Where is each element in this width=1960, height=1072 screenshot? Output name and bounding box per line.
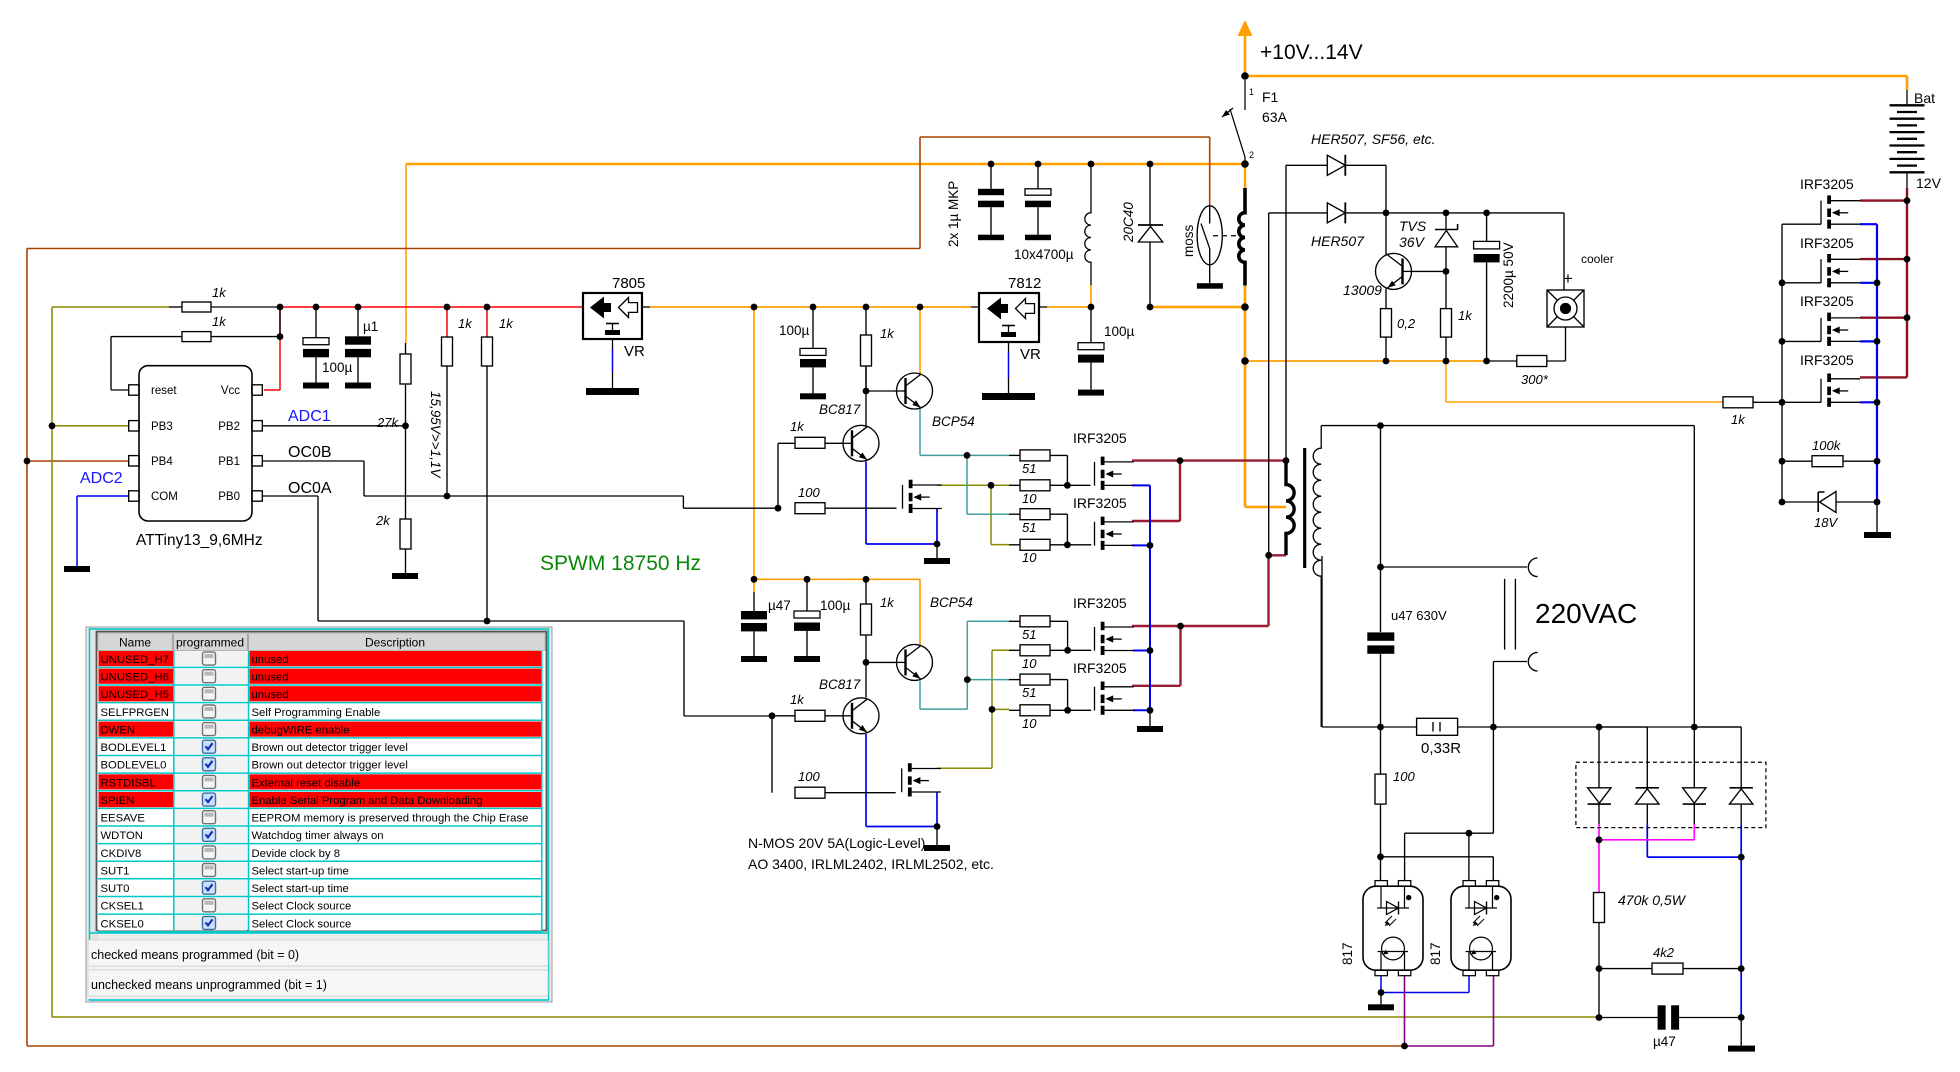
svg-text:Devide clock by 8: Devide clock by 8 [252, 848, 341, 860]
svg-text:PB4: PB4 [151, 456, 173, 468]
transistor N-MOS driver top [903, 480, 942, 513]
table row DWEN [98, 722, 542, 738]
optocoupler 817 left [1363, 881, 1423, 976]
svg-text:PB1: PB1 [218, 456, 240, 468]
svg-text:CKDIV8: CKDIV8 [101, 848, 142, 860]
svg-text:100: 100 [798, 485, 820, 500]
svg-text:Description: Description [365, 636, 425, 650]
svg-text:VR: VR [1020, 346, 1041, 363]
svg-text:HER507: HER507 [1311, 233, 1365, 249]
svg-text:unused: unused [252, 672, 289, 684]
svg-text:checked means programmed (bit: checked means programmed (bit = 0) [91, 948, 299, 962]
svg-text:0,33R: 0,33R [1421, 740, 1461, 757]
MCU ATTiny13 body [129, 366, 263, 521]
dashed box diode bridge [1576, 762, 1766, 827]
svg-text:Watchdog timer always on: Watchdog timer always on [252, 830, 384, 842]
table header row [98, 633, 545, 651]
svg-text:15,95V>>1,1V: 15,95V>>1,1V [428, 391, 443, 479]
svg-text:IRF3205: IRF3205 [1800, 293, 1854, 309]
svg-text:1k: 1k [880, 326, 895, 341]
svg-text:1k: 1k [212, 285, 227, 300]
inductor filter choke small [1085, 164, 1091, 285]
diode HER507 top [1286, 164, 1327, 166]
junction dots bottom driver [751, 576, 941, 830]
junction dots MCU area [24, 304, 491, 625]
wire blue driver MOSFET source riser mid [1132, 485, 1150, 712]
svg-text:unused: unused [252, 689, 289, 701]
svg-text:unchecked means unprogrammed (: unchecked means unprogrammed (bit = 1) [91, 978, 327, 992]
resistor 10 bottom C [1020, 645, 1050, 656]
svg-text:Vcc: Vcc [221, 385, 240, 397]
ground [794, 656, 820, 662]
wire purple optocoupler emitters to brown run [1405, 976, 1494, 1046]
svg-text:BCP54: BCP54 [932, 414, 975, 429]
svg-text:ADC2: ADC2 [80, 470, 123, 487]
svg-text:100µ: 100µ [322, 360, 353, 375]
terminal AC upper [1528, 558, 1537, 577]
wire blue BC817 bottom emitter to ground node [866, 734, 937, 827]
svg-text:27k: 27k [376, 415, 399, 430]
wire brown battery sense top [27, 137, 1210, 249]
wire output loop secondary top [1321, 426, 1694, 727]
svg-text:1k: 1k [880, 595, 895, 610]
wire red +U rail to 7805 [264, 307, 583, 390]
svg-text:10: 10 [1022, 716, 1037, 731]
svg-text:OC0A: OC0A [288, 480, 332, 497]
transistor IRF3205 right 3 [1821, 313, 1860, 346]
svg-text:0,2: 0,2 [1397, 316, 1416, 331]
svg-text:817: 817 [1340, 942, 1355, 965]
svg-text:BC817: BC817 [819, 402, 861, 417]
svg-text:IRF3205: IRF3205 [1800, 352, 1854, 368]
svg-text:COM: COM [151, 491, 178, 503]
resistor 1k BC817 bottom collector [861, 604, 872, 635]
svg-text:Brown out detector trigger lev: Brown out detector trigger level [252, 742, 408, 754]
transistor IRF3205 mid 3 [1095, 622, 1134, 655]
transistor IRF3205 right 2 [1821, 254, 1860, 287]
svg-text:OC0B: OC0B [288, 444, 332, 461]
junction dots opto [1378, 989, 1408, 1049]
table row CKDIV8 [98, 845, 542, 861]
wire AC1 tap [1381, 426, 1528, 632]
wire OC0B run [263, 461, 778, 508]
fuse table window [86, 627, 552, 1002]
svg-text:1k: 1k [458, 316, 473, 331]
svg-text:EESAVE: EESAVE [101, 813, 146, 825]
ground [800, 393, 826, 399]
junction dots top middle [988, 72, 1490, 365]
wire HER507 anode drops [1269, 165, 1286, 555]
wire blue right stack source riser [1860, 224, 1877, 502]
transistor IRF3205 mid 1 [1095, 457, 1134, 490]
ground top driver [936, 544, 938, 558]
svg-text:PB0: PB0 [218, 491, 240, 503]
table row SPIEN [98, 792, 542, 808]
svg-text:10x4700µ: 10x4700µ [1014, 247, 1074, 262]
svg-text:Select start-up time: Select start-up time [252, 865, 349, 877]
ground MCU COM [64, 566, 90, 572]
svg-text:+: + [1563, 269, 1573, 288]
ground mid MOSFET sources [1149, 712, 1151, 726]
wire maroon top MOSFET pair drains to transformer top [1132, 461, 1286, 521]
ground opto [1380, 993, 1382, 1005]
wire maroon battery riser and right stack drain links [1860, 188, 1907, 377]
capacitor 10x4700u [1037, 164, 1039, 189]
diode bridge D1 down [1588, 788, 1611, 803]
svg-text:100µ: 100µ [779, 323, 810, 338]
svg-text:2200µ 50V: 2200µ 50V [1501, 242, 1516, 308]
ground [1025, 235, 1051, 241]
svg-text:UNUSED_H7: UNUSED_H7 [101, 654, 169, 666]
wire AC2 to sense chain [1405, 662, 1527, 882]
resistor 1k OC0A pull-up [482, 337, 493, 366]
transistor N-MOS driver bottom [902, 763, 941, 796]
resistor 1k BC817 top base [795, 437, 825, 448]
svg-text:SPWM 18750 Hz: SPWM 18750 Hz [540, 552, 701, 575]
ground [1078, 390, 1104, 396]
junction dots driver grid [964, 452, 1184, 714]
capacitor 100u bottom rail [806, 579, 808, 611]
resistor 1k BC817 bottom base [795, 710, 825, 721]
transformer T1 secondary [1313, 426, 1321, 727]
ground [741, 656, 767, 662]
junction dots transformer [1265, 457, 1289, 558]
svg-text:817: 817 [1428, 942, 1443, 965]
svg-text:unused: unused [252, 654, 289, 666]
svg-text:7812: 7812 [1008, 275, 1041, 292]
wire orange BCP54 top collector feed [919, 307, 921, 375]
svg-text:µ47: µ47 [1653, 1034, 1676, 1049]
wire BCP54 top base [866, 390, 896, 392]
wire orange regulator rail 7805 to 7812 [650, 306, 971, 308]
wire olive bottom driver 10-ohm feed [937, 650, 1009, 768]
svg-text:VR: VR [624, 343, 645, 360]
table row UNUSED_H7 [98, 651, 542, 667]
table row SUT0 [98, 880, 542, 896]
table row BODLEVEL1 [98, 739, 542, 755]
wire blue optocoupler ground link [1381, 976, 1469, 993]
svg-text:BCP54: BCP54 [930, 595, 973, 610]
ground bottom driver [936, 827, 938, 846]
resistor 1k OC0B pull-up [442, 337, 453, 366]
capacitor u47 bottom rail [753, 592, 755, 611]
svg-text:100µ: 100µ [1104, 324, 1135, 339]
table row CKSEL1 [98, 898, 542, 914]
capacitor 100u MCU rail [315, 307, 317, 338]
svg-text:TVS: TVS [1399, 218, 1427, 234]
optocoupler 817 right [1451, 881, 1511, 976]
resistor 51 bottom C [1020, 616, 1050, 627]
resistor 100 bottom gate [795, 787, 825, 798]
svg-text:CKSEL1: CKSEL1 [101, 901, 144, 913]
resistor 51 top B [1020, 509, 1050, 520]
svg-text:SPIEN: SPIEN [101, 795, 135, 807]
ground [303, 383, 329, 389]
resistor 10 top B [1020, 539, 1050, 550]
voltage regulator U 7812 [971, 293, 1047, 393]
svg-text:CKSEL0: CKSEL0 [101, 918, 144, 930]
resistor 1k BC817 top collector [861, 335, 872, 366]
svg-text:7805: 7805 [612, 275, 645, 292]
svg-text:N-MOS 20V 5A(Logic-Level): N-MOS 20V 5A(Logic-Level) [748, 835, 925, 851]
junction dots right stack [1779, 197, 1911, 505]
svg-text:Brown out detector trigger lev: Brown out detector trigger level [252, 760, 408, 772]
table row SELFPRGEN [98, 704, 542, 720]
wire top BC817 collector link [865, 366, 867, 391]
svg-text:BODLEVEL1: BODLEVEL1 [101, 742, 167, 754]
svg-text:moss: moss [1181, 224, 1196, 257]
wire blue BC817 top emitter to ground node [866, 462, 937, 545]
junction dots output section [1377, 422, 1698, 860]
wire maroon bottom MOSFET pair drains to transformer bottom [1132, 555, 1286, 686]
junction dots regulator rail [751, 304, 941, 548]
svg-text:10: 10 [1022, 550, 1037, 565]
svg-text:ATTiny13_9,6MHz: ATTiny13_9,6MHz [136, 532, 263, 549]
resistor 300* cooler [1547, 327, 1566, 361]
capacitor u47 630V [1367, 632, 1394, 640]
svg-text:Select Clock source: Select Clock source [252, 918, 352, 930]
svg-text:Name: Name [119, 636, 151, 650]
wire teal bottom driver 51-ohm feed [920, 621, 1009, 709]
resistor 100 opto series [1380, 727, 1382, 774]
svg-text:ADC1: ADC1 [288, 408, 331, 425]
capacitor u47 AC sense [1599, 969, 1741, 1018]
table status panel [90, 932, 548, 934]
svg-text:reset: reset [151, 385, 177, 397]
svg-text:2: 2 [1249, 150, 1254, 160]
svg-text:1: 1 [1249, 87, 1254, 97]
wire BCP54 bottom base [866, 661, 896, 663]
resistor 0,2 emitter [1381, 309, 1392, 338]
svg-text:20C40: 20C40 [1121, 202, 1136, 243]
ground [978, 235, 1004, 241]
transistor IRF3205 mid 2 [1095, 517, 1134, 550]
svg-text:13009: 13009 [1343, 282, 1382, 298]
ground right stack [1876, 502, 1878, 532]
diode bridge D2 up [1636, 787, 1659, 789]
svg-text:51: 51 [1022, 461, 1036, 476]
svg-text:Self Programming Enable: Self Programming Enable [252, 707, 381, 719]
svg-text:programmed: programmed [176, 636, 244, 650]
table row WDTON [98, 827, 542, 843]
ground moss [1197, 283, 1223, 289]
wire blue regulator ground stems [613, 349, 1009, 378]
resistor 1k reset pull-up [182, 332, 211, 342]
wire orange vertical rail drop to bottom driver [753, 307, 755, 592]
transistor IRF3205 mid 4 [1095, 682, 1134, 715]
inductor main choke thick [1239, 188, 1245, 286]
fuse switch F1 63A [1222, 80, 1245, 164]
battery Bat 12V [1890, 90, 1925, 188]
svg-text:EEPROM memory is preserved thr: EEPROM memory is preserved through the C… [252, 813, 529, 825]
svg-text:300*: 300* [1521, 372, 1549, 387]
table row RSTDISBL [98, 774, 542, 790]
svg-text:IRF3205: IRF3205 [1800, 235, 1854, 251]
transformer T1 core [1303, 448, 1306, 568]
svg-text:DWEN: DWEN [101, 725, 136, 737]
svg-text:PB3: PB3 [151, 421, 173, 433]
wire olive PB3 feedback long run [52, 307, 1599, 1017]
capacitor 100u after 7812 [1090, 307, 1092, 343]
table row UNUSED_H5 [98, 686, 542, 702]
svg-text:10: 10 [1022, 656, 1037, 671]
svg-text:BC817: BC817 [819, 677, 861, 692]
wire +12V orange top bus with supply arrow [406, 20, 1907, 507]
svg-text:SUT1: SUT1 [101, 865, 130, 877]
resistor 10 top A [1020, 480, 1050, 491]
table row UNUSED_H6 [98, 669, 542, 685]
transistor 13009 mirrored [1376, 253, 1413, 289]
svg-text:12V: 12V [1916, 175, 1942, 191]
svg-text:µ47: µ47 [768, 598, 791, 613]
wire orange 7812 output to filter node [1047, 284, 1091, 307]
svg-text:Select start-up time: Select start-up time [252, 883, 349, 895]
svg-text:IRF3205: IRF3205 [1800, 176, 1854, 192]
ground 7805 [586, 388, 639, 395]
table row BODLEVEL0 [98, 757, 542, 773]
svg-text:PB2: PB2 [218, 421, 240, 433]
svg-text:F1: F1 [1262, 89, 1279, 105]
plug prongs [1504, 579, 1506, 650]
resistor 4k2 [1652, 963, 1683, 974]
wire blue bridge negative to filter [1647, 824, 1741, 1017]
wire blue MCU COM to ground [77, 496, 129, 566]
transistor BC817 top [843, 425, 880, 461]
junction dots bridge [1596, 836, 1745, 860]
capacitor 2x 1u MKP [990, 164, 992, 189]
resistor 470k 0,5W [1594, 893, 1605, 923]
resistor 51 bottom D [1020, 674, 1050, 685]
svg-text:RSTDISBL: RSTDISBL [101, 777, 156, 789]
wire magenta bridge positive to 470k [1599, 824, 1694, 892]
capacitor 100u after 7805 [812, 307, 814, 348]
svg-text:SELFPRGEN: SELFPRGEN [101, 707, 169, 719]
resistor 1k PB3 pull-up [182, 302, 211, 312]
transistor IRF3205 right 1 [1821, 195, 1860, 228]
svg-text:UNUSED_H5: UNUSED_H5 [101, 689, 169, 701]
resistor 1k right gate [1723, 397, 1753, 408]
diode bridge D4 up [1730, 787, 1753, 789]
svg-text:1k: 1k [1731, 412, 1746, 427]
svg-text:µ1: µ1 [363, 319, 378, 334]
svg-text:51: 51 [1022, 627, 1036, 642]
svg-text:1k: 1k [499, 316, 514, 331]
diode zener 18V [1782, 501, 1877, 503]
svg-text:100: 100 [1393, 769, 1415, 784]
svg-text:10: 10 [1022, 491, 1037, 506]
wire orange charge feedback rail y361 [1245, 360, 1487, 362]
ground bottom right [1740, 1018, 1742, 1046]
svg-text:51: 51 [1022, 520, 1036, 535]
resistor 100k gate-source [1812, 456, 1843, 467]
svg-text:BODLEVEL0: BODLEVEL0 [101, 760, 167, 772]
svg-text:1k: 1k [212, 314, 227, 329]
table row SUT1 [98, 862, 542, 878]
wire right stack gate bus [1782, 224, 1821, 502]
svg-text:IRF3205: IRF3205 [1073, 660, 1127, 676]
transistor IRF3205 right 4 [1821, 374, 1860, 407]
svg-text:cooler: cooler [1581, 252, 1614, 266]
svg-text:External reset disable: External reset disable [252, 777, 361, 789]
ground [345, 383, 371, 389]
table row EESAVE [98, 810, 542, 826]
svg-text:UNUSED_H6: UNUSED_H6 [101, 672, 169, 684]
resistor 2k divider bottom [400, 519, 411, 549]
wire olive top driver 10-ohm feed [937, 485, 1009, 544]
svg-text:WDTON: WDTON [101, 830, 143, 842]
svg-text:Select Clock source: Select Clock source [252, 901, 352, 913]
svg-text:100µ: 100µ [820, 598, 851, 613]
svg-text:IRF3205: IRF3205 [1073, 495, 1127, 511]
svg-text:IRF3205: IRF3205 [1073, 595, 1127, 611]
diode HER507 bottom [1269, 212, 1328, 214]
svg-text:IRF3205: IRF3205 [1073, 430, 1127, 446]
svg-text:Enable Serial Program and Data: Enable Serial Program and Data Downloadi… [252, 795, 483, 807]
svg-text:HER507, SF56, etc.: HER507, SF56, etc. [1311, 131, 1436, 147]
wire bridge feeds [1599, 727, 1741, 824]
wire OC0A run [263, 496, 772, 716]
switch moss thermal [1197, 206, 1222, 265]
diode TVS 36V zener [1445, 213, 1447, 230]
diode bridge D3 down [1683, 788, 1706, 803]
svg-text:100k: 100k [1812, 438, 1842, 453]
resistor 100 top gate [795, 503, 825, 514]
diode 20C40 [1149, 164, 1151, 225]
transistor BCP54 top [896, 373, 933, 409]
wire opto net A cross [1381, 857, 1494, 881]
svg-text:18V: 18V [1814, 515, 1838, 530]
wire reset pull-up [111, 307, 280, 390]
resistor 1k 13009 base [1441, 309, 1452, 338]
wire brown left vertical and bottom run to optocouplers [27, 249, 1405, 1047]
svg-text:36V: 36V [1399, 234, 1426, 250]
svg-text:1k: 1k [790, 419, 805, 434]
svg-text:2x 1µ MKP: 2x 1µ MKP [946, 181, 961, 247]
wire ADC1 to divider [263, 425, 406, 427]
svg-text:2k: 2k [375, 513, 391, 528]
wire teal top driver 51-ohm feed [920, 409, 1009, 514]
table row CKSEL0 [98, 915, 542, 931]
transformer T1 primary [1286, 461, 1294, 556]
transistor BCP54 bottom [896, 644, 933, 680]
svg-text:220VAC: 220VAC [1535, 598, 1637, 629]
svg-text:debugWIRE enable: debugWIRE enable [252, 725, 350, 737]
wire orange to right gate resistor [1446, 361, 1723, 402]
svg-text:4k2: 4k2 [1653, 945, 1675, 960]
resistor 10 bottom D [1020, 705, 1050, 716]
resistor 27k divider top [400, 354, 411, 384]
svg-text:63A: 63A [1262, 109, 1288, 125]
table column grid lines [173, 651, 175, 933]
capacitor 2200u 50V [1486, 213, 1488, 242]
svg-text:+10V...14V: +10V...14V [1260, 41, 1363, 64]
transistor BC817 bottom [843, 698, 880, 734]
svg-text:100: 100 [798, 769, 820, 784]
fan cooler [1547, 290, 1584, 327]
svg-text:SUT0: SUT0 [101, 883, 130, 895]
svg-text:Bat: Bat [1914, 90, 1935, 106]
svg-text:u47 630V: u47 630V [1391, 608, 1447, 623]
ground [392, 573, 418, 579]
junction dots bottom right [1596, 965, 1745, 1021]
svg-text:AO 3400, IRLML2402, IRLML2502,: AO 3400, IRLML2402, IRLML2502, etc. [748, 856, 994, 872]
voltage regulator U 7805 [583, 293, 650, 388]
resistor 51 top A [1020, 450, 1050, 461]
wire orange bottom driver rail [754, 579, 920, 645]
svg-text:1k: 1k [790, 692, 805, 707]
resistor 0,33R fuse style [1417, 718, 1458, 735]
svg-text:470k 0,5W: 470k 0,5W [1618, 892, 1687, 908]
